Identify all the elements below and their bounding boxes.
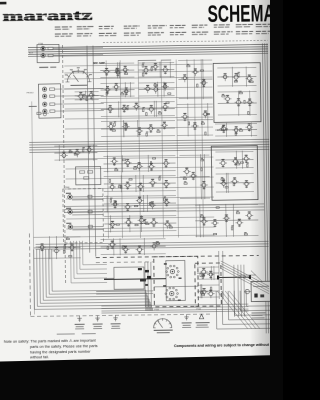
svg-text:without fail.: without fail.	[30, 355, 49, 359]
svg-text:AUX: AUX	[29, 51, 34, 54]
svg-text:having the designated parts: having the designated parts number	[30, 349, 91, 354]
svg-text:LINE AMP: LINE AMP	[217, 129, 228, 132]
svg-text:PHONO: PHONO	[27, 92, 34, 94]
svg-text:MIC AMP: MIC AMP	[93, 61, 105, 65]
